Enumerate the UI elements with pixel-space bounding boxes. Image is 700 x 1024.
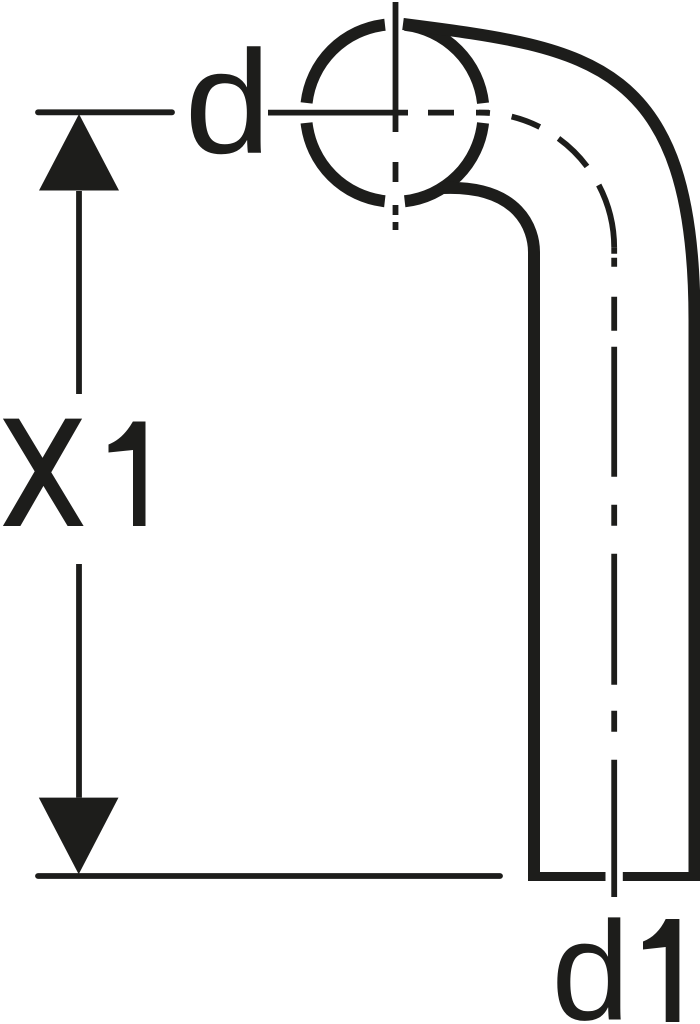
vertical centerline of down pipe [611, 248, 617, 897]
svg-text:d: d [184, 21, 271, 185]
bottom end edge of pipe (left part) [528, 872, 606, 881]
socket circle (pipe opening) with gaps at centerline crossings [306, 24, 484, 202]
X1 arrow head up [39, 114, 119, 191]
label X1 : digit 1 drawn as path [109, 422, 146, 527]
label X1 : letter X drawn as two strokes [3, 419, 84, 526]
X1 arrow head down [39, 798, 119, 875]
dimension extension line at pipe outlet (bottom) [38, 873, 500, 879]
curved centerline of bend [479, 113, 614, 248]
inner wall of bend [443, 188, 534, 881]
label d1 : digit 1 drawn as path [643, 919, 679, 1022]
svg-text:d: d [551, 892, 629, 1024]
horizontal centerline through socket circle [268, 110, 489, 116]
X1 dimension line lower segment [76, 564, 82, 798]
dimension extension line for d (top left) [38, 109, 172, 115]
outer wall of bend [403, 24, 695, 881]
vertical centerline of socket circle [393, 2, 399, 230]
bottom end edge of pipe (right part) [623, 872, 697, 881]
X1 dimension line upper segment [76, 191, 82, 394]
